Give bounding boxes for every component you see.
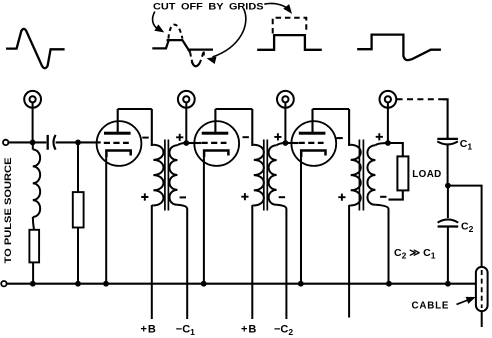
transformer T1 core: [165, 140, 169, 211]
tube V3 plate lead: [311, 109, 313, 134]
label T1 secondary plus: [176, 134, 183, 141]
label T2 primary minus: [243, 136, 249, 138]
junction node output: [385, 140, 391, 146]
junction jack J1 / L1: [30, 140, 36, 146]
tube V3 envelope: [291, 121, 336, 166]
junction cathode V2 rail: [201, 281, 207, 287]
capacitor C2 top plate: [438, 219, 459, 222]
waveform overshoot dashed box: [273, 18, 307, 34]
label +B second: [241, 324, 257, 336]
transformer T2 secondary bottom lead: [277, 205, 287, 319]
capacitor coupling right plate: [54, 135, 56, 150]
label T2 secondary minus: [279, 196, 285, 198]
tube V3 cathode lead: [300, 157, 302, 284]
wire C1 top corner: [443, 99, 448, 138]
wire junction to C2: [447, 186, 449, 218]
cable conductor below: [481, 311, 483, 327]
arrow to clipped peak: [153, 12, 164, 32]
transformer T3 primary lead top: [348, 109, 350, 146]
label -C1: [176, 324, 195, 338]
wire jack J3 stem: [284, 102, 286, 143]
wire jack J4 stem: [387, 102, 389, 143]
resistor LOAD: [397, 156, 408, 190]
capacitor C2 bottom plate: [438, 225, 459, 227]
tube V1 grid: [104, 142, 129, 144]
arrow to overshoot box: [264, 3, 291, 12]
transformer T3 primary joint: [349, 145, 351, 206]
wire V3 plate to T3: [313, 108, 350, 110]
waveform trough solid arc: [192, 62, 200, 67]
transformer T3 secondary bottom lead: [375, 205, 388, 284]
inductor L1: [33, 142, 40, 217]
jack J1: [24, 91, 41, 108]
arrow cable pointer: [457, 297, 475, 304]
label T2 primary plus: [241, 193, 248, 200]
wire jack J1 stem: [32, 102, 34, 142]
wire junction to cable: [448, 186, 482, 268]
label +B first: [141, 324, 157, 336]
label T3 secondary minus: [380, 196, 386, 198]
transformer T1 secondary top lead: [177, 143, 186, 145]
wire load bottom: [389, 190, 403, 199]
tube V2 grid: [202, 142, 227, 144]
tube V2 cathode lead: [203, 157, 205, 284]
transformer T3 core: [359, 140, 363, 211]
transformer T3 secondary top lead: [375, 143, 388, 145]
label LOAD: [412, 169, 441, 180]
junction T3 secondary rail: [386, 281, 392, 287]
wire node to grid V3: [285, 142, 298, 144]
jack J2: [178, 91, 195, 108]
svg-text:CABLE: CABLE: [412, 300, 450, 311]
wire V1 plate to T1: [118, 108, 152, 110]
transformer T2 primary joint: [252, 145, 254, 206]
wire node to grid V2: [186, 142, 201, 144]
wire R2 top lead: [77, 142, 79, 192]
transformer T2 primary winding: [254, 145, 264, 206]
terminal input bottom: [1, 281, 6, 286]
transformer T2 primary lead top: [251, 109, 253, 146]
junction node grid V2: [183, 140, 189, 146]
waveform square pulse: [257, 35, 322, 50]
wire V2 plate to T2: [215, 108, 252, 110]
transformer T2 secondary top lead: [277, 143, 286, 145]
jack J4: [380, 91, 397, 108]
cable center conductor dashed: [481, 270, 483, 308]
resistor R1: [29, 230, 39, 263]
label T1 secondary minus: [180, 196, 186, 198]
tube V2 plate lead: [214, 109, 216, 134]
label CABLE: [412, 300, 450, 311]
svg-text:CUT OFF BY GRIDS: CUT OFF BY GRIDS: [153, 0, 264, 11]
jack J3: [277, 91, 294, 108]
tube V1 plate lead: [117, 109, 119, 134]
wire T1 primary to +B stub: [151, 205, 153, 319]
wire C2 to rail: [447, 227, 449, 284]
label T3 secondary plus: [376, 133, 383, 140]
tube V3 grid: [299, 142, 324, 144]
cable sheath: [476, 267, 488, 311]
label CUT OFF BY GRIDS: [153, 0, 264, 11]
svg-text:C2 ≫ C1: C2 ≫ C1: [394, 247, 436, 261]
junction C2 rail: [445, 281, 451, 287]
tube V3 plate: [299, 132, 326, 135]
transformer T2 core: [264, 140, 268, 211]
waveform clipped peak dashed: [168, 25, 182, 39]
label C2 much greater C1: [394, 247, 436, 261]
waveform grid-clipped sine solid: [152, 40, 213, 53]
wire capacitor to grid V1: [56, 141, 101, 143]
transformer T3 primary winding: [351, 145, 361, 206]
tube V2 envelope: [194, 121, 239, 166]
wire output dashed to C1: [397, 98, 444, 100]
wire T3 primary stub: [348, 205, 350, 318]
transformer T1 primary lead top: [151, 109, 153, 146]
arrow to clipped trough: [208, 9, 246, 63]
tube V1 envelope: [97, 121, 142, 166]
label TO PULSE SOURCE: [3, 157, 13, 263]
waveform clipped trough dashed: [190, 50, 204, 63]
tube V1 cathode: [106, 151, 130, 158]
tube V1 cathode lead: [105, 157, 107, 284]
ground rail: [7, 283, 476, 285]
tube V2 cathode: [204, 151, 228, 158]
transformer T1 primary joint: [152, 145, 154, 206]
capacitor C1 top plate: [437, 138, 458, 140]
capacitor coupling left plate: [47, 135, 49, 150]
label C2: [461, 221, 474, 235]
wire input to capacitor: [8, 141, 46, 143]
tube V3 cathode: [301, 151, 325, 158]
wire R2 to rail: [77, 228, 79, 284]
transformer T1 secondary bottom lead: [177, 205, 187, 319]
wire node to load: [388, 143, 403, 156]
junction C1 C2 cable: [445, 183, 451, 189]
terminal input top: [3, 140, 8, 145]
wire T2 primary to +B stub: [251, 205, 253, 319]
label T3 primary minus: [336, 137, 342, 139]
svg-text:+B: +B: [241, 324, 257, 336]
transformer T1 primary winding: [153, 145, 163, 206]
waveform input pulse: [6, 29, 65, 68]
label C1: [460, 138, 473, 152]
capacitor C1 bottom plate: [437, 141, 458, 144]
resistor R2: [73, 192, 84, 227]
label -C2: [274, 324, 293, 338]
junction node grid V3: [283, 140, 289, 146]
junction R2 top: [75, 140, 81, 146]
wire L1 to R1: [33, 217, 34, 230]
wire R1 to rail: [32, 262, 34, 283]
transformer T1 secondary winding: [169, 145, 177, 205]
transformer T3 secondary winding: [367, 145, 375, 205]
junction cathode V3 rail: [298, 281, 304, 287]
svg-text:+B: +B: [141, 324, 157, 336]
svg-text:LOAD: LOAD: [412, 169, 441, 180]
transformer T2 secondary winding: [269, 145, 277, 205]
junction cathode V1 rail: [103, 281, 109, 287]
label T3 primary plus: [338, 194, 345, 201]
junction R1 rail: [30, 281, 36, 287]
tube V2 plate: [202, 132, 229, 135]
wire C1 to junction: [447, 146, 449, 186]
junction R2 rail: [75, 281, 81, 287]
tube V1 plate: [104, 132, 131, 135]
label T2 secondary plus: [274, 133, 281, 140]
label T1 primary plus: [141, 193, 148, 200]
svg-text:TO PULSE SOURCE: TO PULSE SOURCE: [3, 157, 13, 263]
waveform output distorted pulse: [357, 35, 441, 61]
wire jack J2 stem: [185, 102, 187, 143]
label T1 primary minus: [142, 137, 148, 139]
